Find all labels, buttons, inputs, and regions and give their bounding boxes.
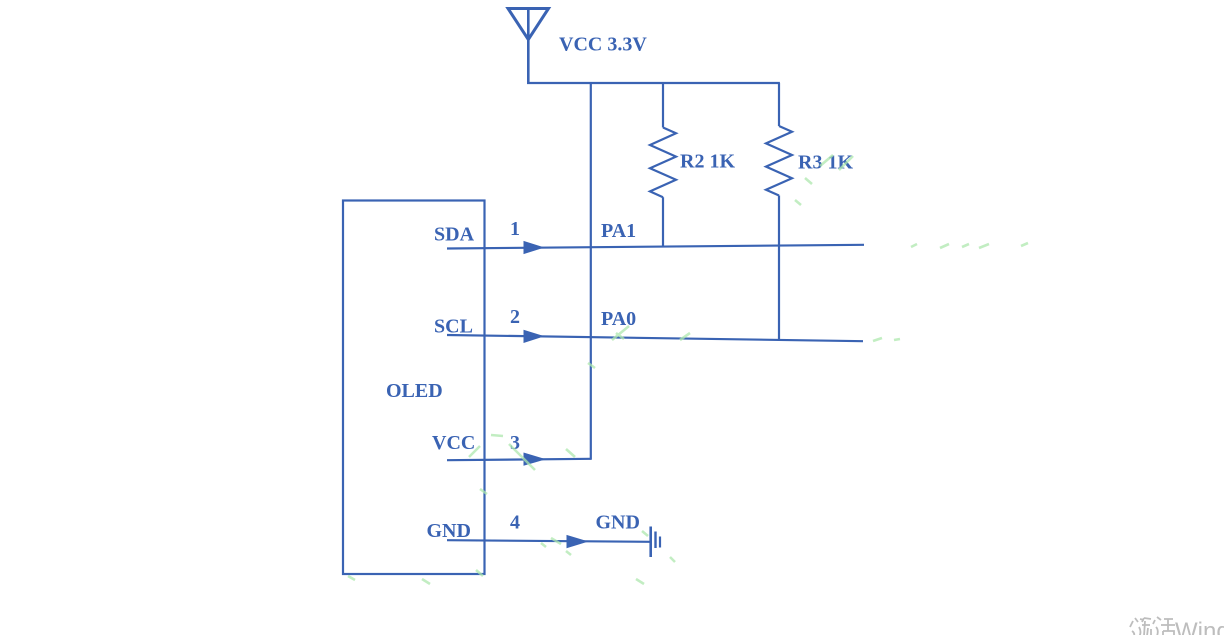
ground symbol: [651, 527, 660, 558]
svg-text:OLED: OLED: [386, 380, 443, 402]
svg-text:VCC: VCC: [432, 432, 475, 454]
wire SDA / net PA1: [447, 241, 864, 254]
wire GND pin 4: [447, 535, 651, 548]
wire SCL / net PA0: [447, 330, 863, 343]
svg-text:SDA: SDA: [434, 224, 475, 246]
svg-text:4: 4: [510, 512, 520, 534]
svg-text:Windows: Windows: [1175, 618, 1224, 635]
wire VCC pin 3: [447, 453, 591, 466]
svg-text:PA1: PA1: [601, 220, 636, 242]
svg-text:GND: GND: [596, 512, 640, 534]
svg-text:1: 1: [510, 218, 520, 240]
wire top bus: [527, 82, 780, 84]
resistor R2: [650, 83, 676, 247]
svg-text:GND: GND: [427, 520, 471, 542]
resistor R3: [766, 83, 792, 340]
svg-text:2: 2: [510, 306, 520, 328]
artifact green specks: [348, 155, 1028, 584]
watermark activate windows: [1130, 617, 1175, 635]
svg-text:R2 1K: R2 1K: [680, 151, 735, 173]
power symbol VCC: [508, 9, 549, 84]
OLED box U1: [343, 201, 485, 575]
svg-text:VCC 3.3V: VCC 3.3V: [559, 34, 647, 56]
svg-text:PA0: PA0: [601, 308, 636, 330]
wire vcc vertical drop: [590, 83, 592, 460]
